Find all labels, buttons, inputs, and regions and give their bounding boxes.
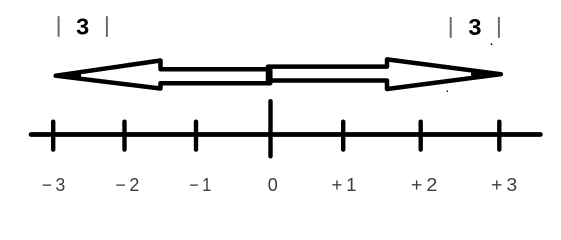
svg-text:+ 2: + 2 [411, 175, 438, 195]
svg-text:3: 3 [76, 14, 89, 40]
tick 0 (tall) [268, 101, 272, 156]
svg-text:− 3: − 3 [42, 175, 66, 195]
noise speck lower [447, 90, 449, 92]
right block arrow (pointing right) [268, 59, 501, 89]
noise speck upper [491, 43, 493, 45]
svg-text:+ 3: + 3 [491, 175, 517, 195]
tick +3 [497, 122, 501, 150]
svg-text:0: 0 [268, 175, 278, 195]
left absolute-value bar 2 [106, 16, 108, 37]
left absolute-value bar 1 [58, 16, 60, 37]
svg-text:+ 1: + 1 [332, 175, 357, 195]
right absolute-value bar 2 [498, 17, 500, 38]
left arrow tip solid wedge [56, 74, 81, 77]
tick -2 [122, 122, 126, 150]
tick +1 [341, 122, 345, 150]
right arrow tip solid wedge [471, 73, 501, 76]
svg-text:3: 3 [468, 14, 481, 40]
svg-text:− 1: − 1 [189, 175, 211, 195]
tick +2 [419, 122, 423, 150]
number line [31, 132, 540, 137]
tick -3 [51, 122, 55, 150]
left block arrow (pointing left) [56, 61, 271, 89]
svg-text:− 2: − 2 [115, 175, 139, 195]
tick -1 [194, 122, 198, 150]
right absolute-value bar 1 [450, 17, 452, 38]
